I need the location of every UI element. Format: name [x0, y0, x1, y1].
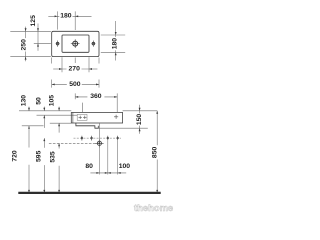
svg-text:125: 125	[30, 15, 37, 27]
svg-text:270: 270	[69, 66, 81, 73]
svg-text:360: 360	[90, 93, 102, 100]
svg-text:105: 105	[49, 95, 56, 107]
svg-text:thehome: thehome	[134, 202, 173, 213]
svg-text:180: 180	[111, 38, 118, 50]
svg-text:150: 150	[136, 114, 143, 126]
svg-text:595: 595	[36, 150, 43, 162]
svg-text:500: 500	[69, 81, 81, 88]
svg-text:50: 50	[36, 97, 43, 105]
svg-text:850: 850	[151, 147, 158, 159]
svg-text:720: 720	[11, 150, 18, 162]
svg-text:250: 250	[21, 39, 28, 51]
svg-text:130: 130	[21, 95, 28, 107]
svg-text:180: 180	[60, 13, 72, 20]
svg-text:100: 100	[119, 163, 131, 170]
svg-text:80: 80	[85, 163, 93, 170]
svg-text:535: 535	[50, 151, 57, 163]
